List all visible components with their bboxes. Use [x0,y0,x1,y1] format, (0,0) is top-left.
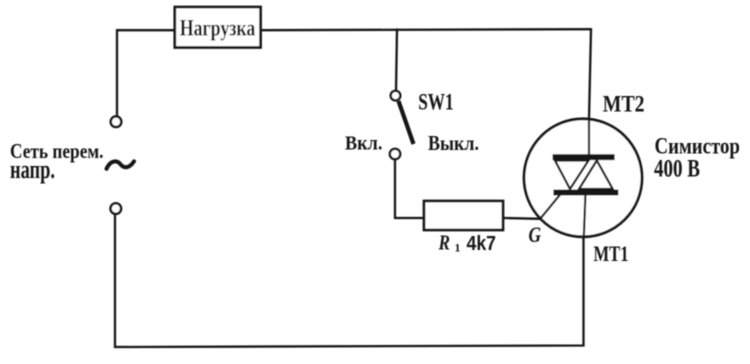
gate wire diagonal [540,194,561,220]
wire top from load box right toward triac branch [261,29,591,30]
wire top-left from load box to upper terminal [117,30,175,116]
switch SW1 bottom contact [390,149,400,159]
svg-text:Выкл.: Выкл. [428,131,479,155]
triac right triangle (points up) [579,161,613,190]
AC tilde symbol [107,161,135,169]
svg-text:G: G [529,222,542,247]
node: upper mains terminal [111,116,122,127]
svg-text:MT2: MT2 [603,91,645,116]
svg-text:напр.: напр. [10,155,55,184]
resistor R1 [424,201,503,230]
svg-text:1: 1 [455,241,461,255]
triac top bar [553,154,615,160]
wire switch branch drop [396,29,397,91]
svg-text:SW1: SW1 [418,89,453,114]
wire resistor to gate node [503,217,540,220]
svg-text:Вкл.: Вкл. [345,132,382,154]
svg-text:R: R [438,231,450,255]
wire vertical drop to triac MT2 [589,29,591,118]
wire from switch bottom to resistor [395,159,424,218]
load box Нагрузка [175,7,261,48]
svg-text:MT1: MT1 [594,241,629,266]
svg-text:400 В: 400 В [654,156,700,183]
triac MT2 lead inside [588,119,590,156]
triac left triangle (points down) [555,161,589,190]
node: lower mains terminal [111,203,122,214]
switch SW1 top contact [391,91,401,101]
triac MT1 lead inside [584,193,586,238]
switch lever [399,101,414,144]
triac U1 body circle [524,119,642,237]
svg-text:4k7: 4k7 [467,233,497,255]
wire bottom loop [115,214,584,347]
triac bottom bar [553,190,618,196]
svg-text:Нагрузка: Нагрузка [180,15,256,41]
